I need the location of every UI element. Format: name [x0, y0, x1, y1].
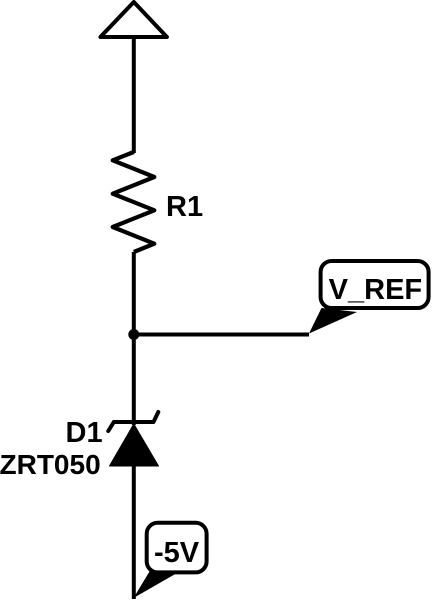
svg-text:ZRT050: ZRT050	[0, 449, 101, 480]
wire	[132, 335, 136, 425]
wire	[132, 37, 136, 153]
power supply symbol	[100, 2, 166, 37]
node junction	[128, 329, 139, 340]
net flag -5V	[134, 523, 207, 598]
net flag V_REF	[309, 261, 429, 334]
svg-text:R1: R1	[166, 191, 203, 223]
svg-text:D1: D1	[66, 417, 103, 449]
svg-text:-5V: -5V	[154, 537, 200, 569]
resistor R1	[113, 152, 155, 252]
wire	[134, 333, 309, 337]
zener diode D1	[108, 412, 158, 466]
wire	[132, 252, 136, 335]
svg-text:V_REF: V_REF	[329, 274, 422, 306]
wire	[132, 466, 136, 599]
